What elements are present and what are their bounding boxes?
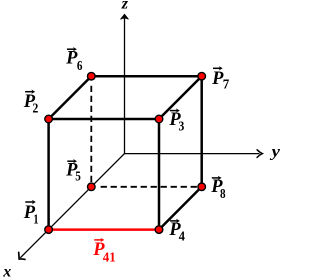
svg-text:x: x (2, 263, 11, 278)
vertex dot P6 (88, 72, 96, 80)
hidden edge P5-P6 (dashed) (90, 86, 92, 187)
svg-text:8: 8 (220, 187, 226, 202)
label P3 (168, 108, 184, 134)
cube edge P2-P6 (49, 76, 92, 119)
cube edge P7-P8 (200, 76, 203, 187)
svg-text:41: 41 (103, 251, 116, 266)
cube edge P4-P8 (159, 187, 202, 230)
label P6 (65, 47, 82, 74)
label P7 (211, 66, 229, 92)
red edge P1-P4 (vector P41) (49, 228, 159, 231)
label P1 (23, 200, 39, 228)
vertex dot P2 (45, 115, 53, 123)
label P4 (168, 219, 185, 245)
vertex dot P7 (198, 72, 206, 80)
cube edge P6-P7 (91, 75, 201, 78)
label P5 (65, 159, 81, 185)
label P41 (red, vector from P4 to P1) (92, 238, 116, 266)
vertex dot P8 (198, 183, 206, 191)
svg-text:y: y (269, 144, 280, 161)
svg-text:7: 7 (223, 77, 230, 92)
label z axis (121, 0, 129, 12)
y axis (125, 150, 263, 158)
vertex dot P5 (88, 183, 96, 191)
svg-text:3: 3 (179, 120, 185, 135)
hidden edge P5-P8 (dashed) (101, 186, 202, 188)
x axis (19, 154, 125, 260)
vertex dot P4 (155, 226, 163, 234)
label P8 (210, 176, 225, 202)
label x axis (2, 263, 11, 278)
svg-text:2: 2 (33, 101, 39, 116)
cube edge P3-P7 (159, 76, 202, 119)
label y axis (269, 144, 281, 161)
svg-text:5: 5 (75, 170, 81, 185)
cube edge P3-P4 (158, 119, 161, 230)
svg-text:1: 1 (33, 213, 38, 228)
svg-text:6: 6 (77, 59, 83, 74)
svg-text:4: 4 (179, 230, 185, 245)
z axis (121, 14, 129, 153)
vertex dot P1 (45, 226, 53, 234)
label P2 (23, 90, 39, 117)
cube edge P2-P3 (49, 118, 159, 121)
cube edge P1-P2 (47, 119, 50, 230)
vertex dot P3 (155, 115, 163, 123)
svg-text:z: z (121, 0, 129, 12)
